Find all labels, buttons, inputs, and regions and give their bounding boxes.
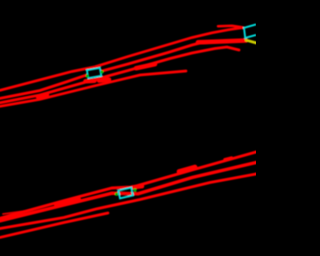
wire short flat segment W at corner [218,26,242,27]
wire thick blob on M1 left [56,199,79,204]
node green dot right of box L1 [133,188,136,191]
vehicle box U1 (upper cyan box) [87,68,101,78]
wire trajectory D (bottom of upper band, ends mid-image) [0,71,186,106]
node green dot left of box L1 [115,193,118,196]
wire trajectory M1 (lower band main thick) [0,163,256,221]
wire trajectory M3 [0,213,108,237]
wire bump on Mtop [225,158,232,160]
vehicle box L1 (lower cyan box) [118,188,133,199]
wire blob on Mtop right of lower box [133,186,143,187]
wire blob on R [136,64,155,68]
wire trajectory M2 [0,174,256,229]
wire short trajectory M0 (lower band top-left) [3,210,32,214]
node green dot left of box U1 [86,74,89,77]
wire thick arrow blob on C left [38,95,47,97]
vehicle box U2 (top-right corner cyan box, clipped by edge) [244,24,256,38]
wire thick segment on C under box left [86,78,95,83]
wire trajectory C (passes under upper box, flat hook ending near corner) [0,47,239,103]
node green dot right of box U1 [100,70,103,73]
wire yellow trajectory at corner [246,40,256,43]
wire trajectory Mtop (lower band, starts above lower box) [0,152,256,218]
wire corner mass [198,41,246,43]
wire trajectory A (long, grazes above upper box, ends at corner box) [0,28,243,91]
wire thick segment on C under box right [99,77,109,82]
wire trajectory B (ends at upper box left edge) [0,75,86,98]
wire thick blob on Mtop [179,167,195,172]
wire trajectory R (from upper box right edge to corner mass) [102,40,246,71]
